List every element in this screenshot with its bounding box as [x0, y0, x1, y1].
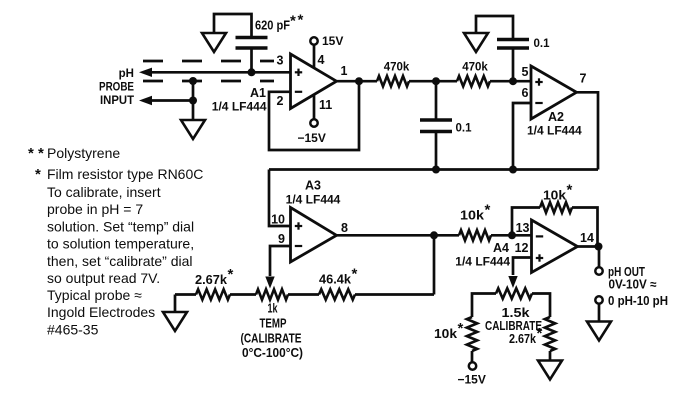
resistor 10k input [459, 230, 491, 240]
ground at 620pF cap [202, 33, 226, 52]
svg-text:A3: A3 [305, 179, 321, 193]
wire 10k to -15V terminal [471, 351, 474, 362]
wire A3 output down to 46.4k [433, 235, 436, 294]
capacitor C3 0.1 [497, 38, 529, 41]
resistor 10k to -15V [467, 317, 477, 351]
svg-text:0°C-100°C): 0°C-100°C) [242, 346, 303, 360]
wire output to pH OUT terminal [598, 247, 601, 268]
svg-text:10k: 10k [543, 189, 566, 203]
op-amp A4 [532, 220, 578, 273]
svg-text:solution. Set “temp” dial: solution. Set “temp” dial [47, 218, 194, 234]
node A4 pin13 junction [508, 231, 516, 239]
resistor 470k second [457, 76, 490, 86]
svg-text:2: 2 [277, 94, 284, 108]
svg-text:1/4 LF444: 1/4 LF444 [212, 100, 267, 114]
svg-text:(CALIBRATE: (CALIBRATE [241, 332, 302, 346]
wire A1 output [337, 80, 378, 83]
svg-text:*: * [458, 320, 464, 337]
svg-text:0.1: 0.1 [534, 38, 551, 50]
arrow calibrate pot wiper [508, 276, 517, 288]
wire pot to 46.4k [288, 293, 319, 296]
node A1 output junction [355, 77, 363, 85]
wire pH input to A1 pin3 [150, 71, 291, 74]
svg-text:0.1: 0.1 [456, 123, 473, 135]
arrow temp pot wiper [265, 277, 274, 289]
capacitor C1 620 pF [236, 36, 268, 39]
wire A1 feedback loop [269, 81, 359, 150]
shield dashed line bottom [143, 80, 274, 83]
wire A2/A3 bus [269, 168, 598, 171]
ground at C3 [464, 33, 488, 52]
arrow pH input [139, 68, 152, 77]
svg-text:12: 12 [515, 241, 529, 255]
resistor 2.67k left [196, 289, 230, 299]
wire 46.4k to A3 output net [355, 293, 434, 296]
terminal -15V calibrate [469, 362, 476, 369]
svg-text:Typical probe ≈: Typical probe ≈ [47, 287, 142, 303]
svg-text:15V: 15V [322, 34, 343, 48]
svg-text:*: * [290, 13, 296, 30]
svg-text:11: 11 [319, 98, 332, 112]
shield dashed line top [143, 60, 274, 63]
ground calibrate network [538, 361, 562, 380]
svg-text:CALIBRATE: CALIBRATE [485, 319, 542, 333]
wire output ground terminal [598, 304, 601, 322]
wire left end down [174, 295, 177, 313]
wire ground loop to C1 top [214, 14, 252, 38]
arrow probe input low [139, 96, 152, 105]
svg-text:A4: A4 [493, 241, 509, 255]
wire A4 feedback up [512, 208, 540, 236]
svg-text:To calibrate, insert: To calibrate, insert [47, 184, 161, 200]
potentiometer 1k TEMP [256, 289, 288, 299]
wire pot left to 10k [472, 294, 496, 318]
svg-text:*: * [228, 266, 234, 283]
wire C3 to pin5 [512, 48, 515, 81]
svg-text:1k: 1k [268, 302, 278, 316]
svg-text:1/4 LF444: 1/4 LF444 [455, 255, 510, 269]
wire 2.67k to ground [549, 351, 552, 361]
wire 470k to A2 pin5 [490, 80, 531, 83]
wire A3 output [337, 234, 460, 237]
op-amp A3 [291, 208, 337, 263]
wire A2 pin6 feedback [513, 103, 531, 170]
svg-text:PROBE: PROBE [99, 82, 134, 94]
svg-text:10: 10 [271, 213, 285, 227]
resistor 2.67k right [545, 317, 555, 351]
ground output [587, 322, 611, 341]
potentiometer 1.5k CALIBRATE [496, 288, 532, 298]
svg-text:9: 9 [278, 232, 285, 246]
node A4 output junction [595, 243, 603, 251]
svg-text:7: 7 [580, 72, 587, 86]
node C1/pin3 junction [248, 68, 256, 76]
svg-text:so output read 7V.: so output read 7V. [47, 270, 160, 286]
ground probe shield [181, 120, 205, 139]
wire A4 output [578, 245, 599, 248]
node bus A2 feedback junction [509, 166, 517, 174]
svg-text:* *Polystyrene: * *Polystyrene [28, 145, 120, 162]
op-amp A2 [531, 66, 577, 119]
svg-text:probe in pH = 7: probe in pH = 7 [47, 201, 143, 217]
svg-text:1/4 LF444: 1/4 LF444 [286, 193, 341, 207]
wire C3 top loop to ground [476, 16, 513, 40]
svg-text:8: 8 [341, 221, 348, 235]
svg-text:INPUT: INPUT [100, 95, 134, 107]
resistor 46.4k [319, 289, 355, 299]
svg-text:5: 5 [522, 65, 529, 79]
capacitor C2 0.1 [420, 118, 452, 121]
svg-text:6: 6 [522, 86, 529, 100]
svg-text:*: * [485, 202, 491, 219]
svg-text:to solution temperature,: to solution temperature, [47, 236, 194, 252]
svg-text:*Film resistor type RN60C: *Film resistor type RN60C [35, 166, 203, 183]
wire A4 feedback right [572, 208, 598, 247]
wire A4 pin12 to calibrate pot [513, 258, 532, 276]
svg-text:1.5k: 1.5k [502, 306, 530, 320]
op-amp A1 [291, 54, 337, 109]
svg-text:3: 3 [277, 54, 284, 68]
svg-text:−15V: −15V [458, 373, 486, 387]
svg-text:2.67k: 2.67k [195, 273, 227, 287]
wire probe input low [150, 99, 193, 102]
terminal output ground [595, 296, 602, 303]
svg-text:10k: 10k [460, 209, 484, 223]
wire 10k to A4 pin13 [491, 234, 532, 237]
node filter midpoint [432, 77, 440, 85]
svg-text:1: 1 [341, 64, 348, 78]
node bus C2 junction [432, 166, 440, 174]
svg-text:470k: 470k [462, 62, 488, 74]
terminal -15V A1 [310, 119, 317, 126]
svg-text:0 pH-10 pH: 0 pH-10 pH [608, 294, 668, 308]
svg-text:14: 14 [580, 231, 594, 245]
node A3 output junction [430, 231, 438, 239]
svg-text:13: 13 [516, 221, 530, 235]
wire pot right to 2.67k [532, 294, 550, 318]
wire A3 pin9 to temp pot wiper [270, 246, 291, 276]
wire shield to ground [192, 81, 195, 120]
svg-text:*: * [567, 182, 573, 199]
svg-text:pH: pH [119, 68, 134, 80]
terminal +15V A1 [310, 37, 317, 44]
node A2 pin5 junction [509, 77, 517, 85]
svg-text:#465-35: #465-35 [47, 321, 99, 337]
node input/shield junction [189, 97, 197, 105]
svg-text:0V-10V ≈: 0V-10V ≈ [609, 278, 657, 292]
wire 2.67k to pot [230, 293, 256, 296]
svg-text:4: 4 [318, 53, 325, 67]
svg-text:1/4 LF444: 1/4 LF444 [527, 124, 582, 138]
svg-text:620 pF: 620 pF [255, 19, 290, 33]
wire C2 to bus [435, 132, 438, 170]
svg-text:*: * [352, 266, 358, 283]
svg-text:470k: 470k [384, 62, 410, 74]
wire A2 output to bus [577, 92, 599, 169]
wire C1 bottom to pin3 net [250, 48, 253, 72]
wire between 470k resistors [409, 80, 457, 83]
svg-text:TEMP: TEMP [260, 317, 287, 331]
wire A1 pin4 to +15V [313, 45, 316, 69]
wire A1 pin11 to -15V [313, 95, 316, 120]
svg-text:2.67k: 2.67k [509, 332, 536, 346]
ground temp network [163, 312, 187, 331]
svg-text:−15V: −15V [298, 131, 326, 145]
wire bus to A3 pin10 [269, 170, 291, 227]
terminal pH OUT [595, 267, 602, 274]
wire gnd to 2.67k [175, 293, 196, 296]
node shield junction [189, 77, 197, 85]
svg-text:46.4k: 46.4k [319, 273, 351, 287]
svg-text:*: * [298, 12, 304, 29]
svg-text:then, set “calibrate” dial: then, set “calibrate” dial [47, 253, 193, 269]
resistor 470k first [377, 76, 409, 86]
svg-text:A1: A1 [250, 86, 266, 100]
svg-text:10k: 10k [434, 327, 457, 341]
svg-text:A2: A2 [548, 110, 564, 124]
wire midpoint to C2 [435, 81, 438, 120]
resistor 10k feedback [540, 202, 572, 212]
svg-text:Ingold Electrodes: Ingold Electrodes [47, 304, 155, 320]
